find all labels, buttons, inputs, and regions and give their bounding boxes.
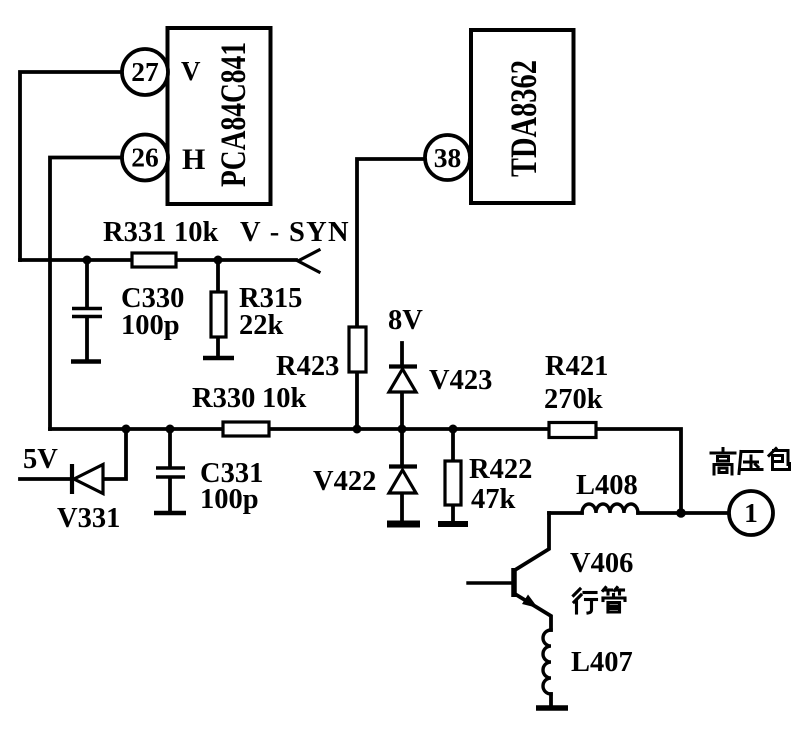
svg-text:V: V xyxy=(181,56,201,86)
svg-text:100p: 100p xyxy=(121,310,180,341)
svg-text:270k: 270k xyxy=(544,384,603,415)
svg-text:V331: V331 xyxy=(57,503,120,534)
svg-text:10k: 10k xyxy=(262,383,307,414)
svg-text:H: H xyxy=(182,143,205,176)
svg-text:R422: R422 xyxy=(469,454,532,485)
svg-text:27: 27 xyxy=(131,56,159,87)
svg-text:47k: 47k xyxy=(471,484,516,515)
svg-text:8V: 8V xyxy=(388,305,423,336)
svg-text:V406: V406 xyxy=(570,548,633,579)
svg-text:R421: R421 xyxy=(545,351,608,382)
svg-text:10k: 10k xyxy=(174,217,219,248)
svg-text:PCA84C841: PCA84C841 xyxy=(213,42,253,187)
svg-text:R423: R423 xyxy=(276,351,339,382)
svg-text:L407: L407 xyxy=(571,647,633,678)
svg-text:V - SYN: V - SYN xyxy=(240,217,350,248)
svg-text:100p: 100p xyxy=(200,484,259,515)
svg-text:26: 26 xyxy=(131,142,159,173)
svg-text:22k: 22k xyxy=(239,310,284,341)
svg-text:R330: R330 xyxy=(192,383,255,414)
svg-text:5V: 5V xyxy=(23,444,58,475)
svg-text:V423: V423 xyxy=(429,365,492,396)
svg-text:38: 38 xyxy=(434,142,462,173)
svg-text:R331: R331 xyxy=(103,217,166,248)
svg-text:V422: V422 xyxy=(313,466,376,497)
svg-text:L408: L408 xyxy=(576,470,638,501)
svg-text:TDA8362: TDA8362 xyxy=(504,60,545,177)
svg-text:1: 1 xyxy=(744,497,758,528)
